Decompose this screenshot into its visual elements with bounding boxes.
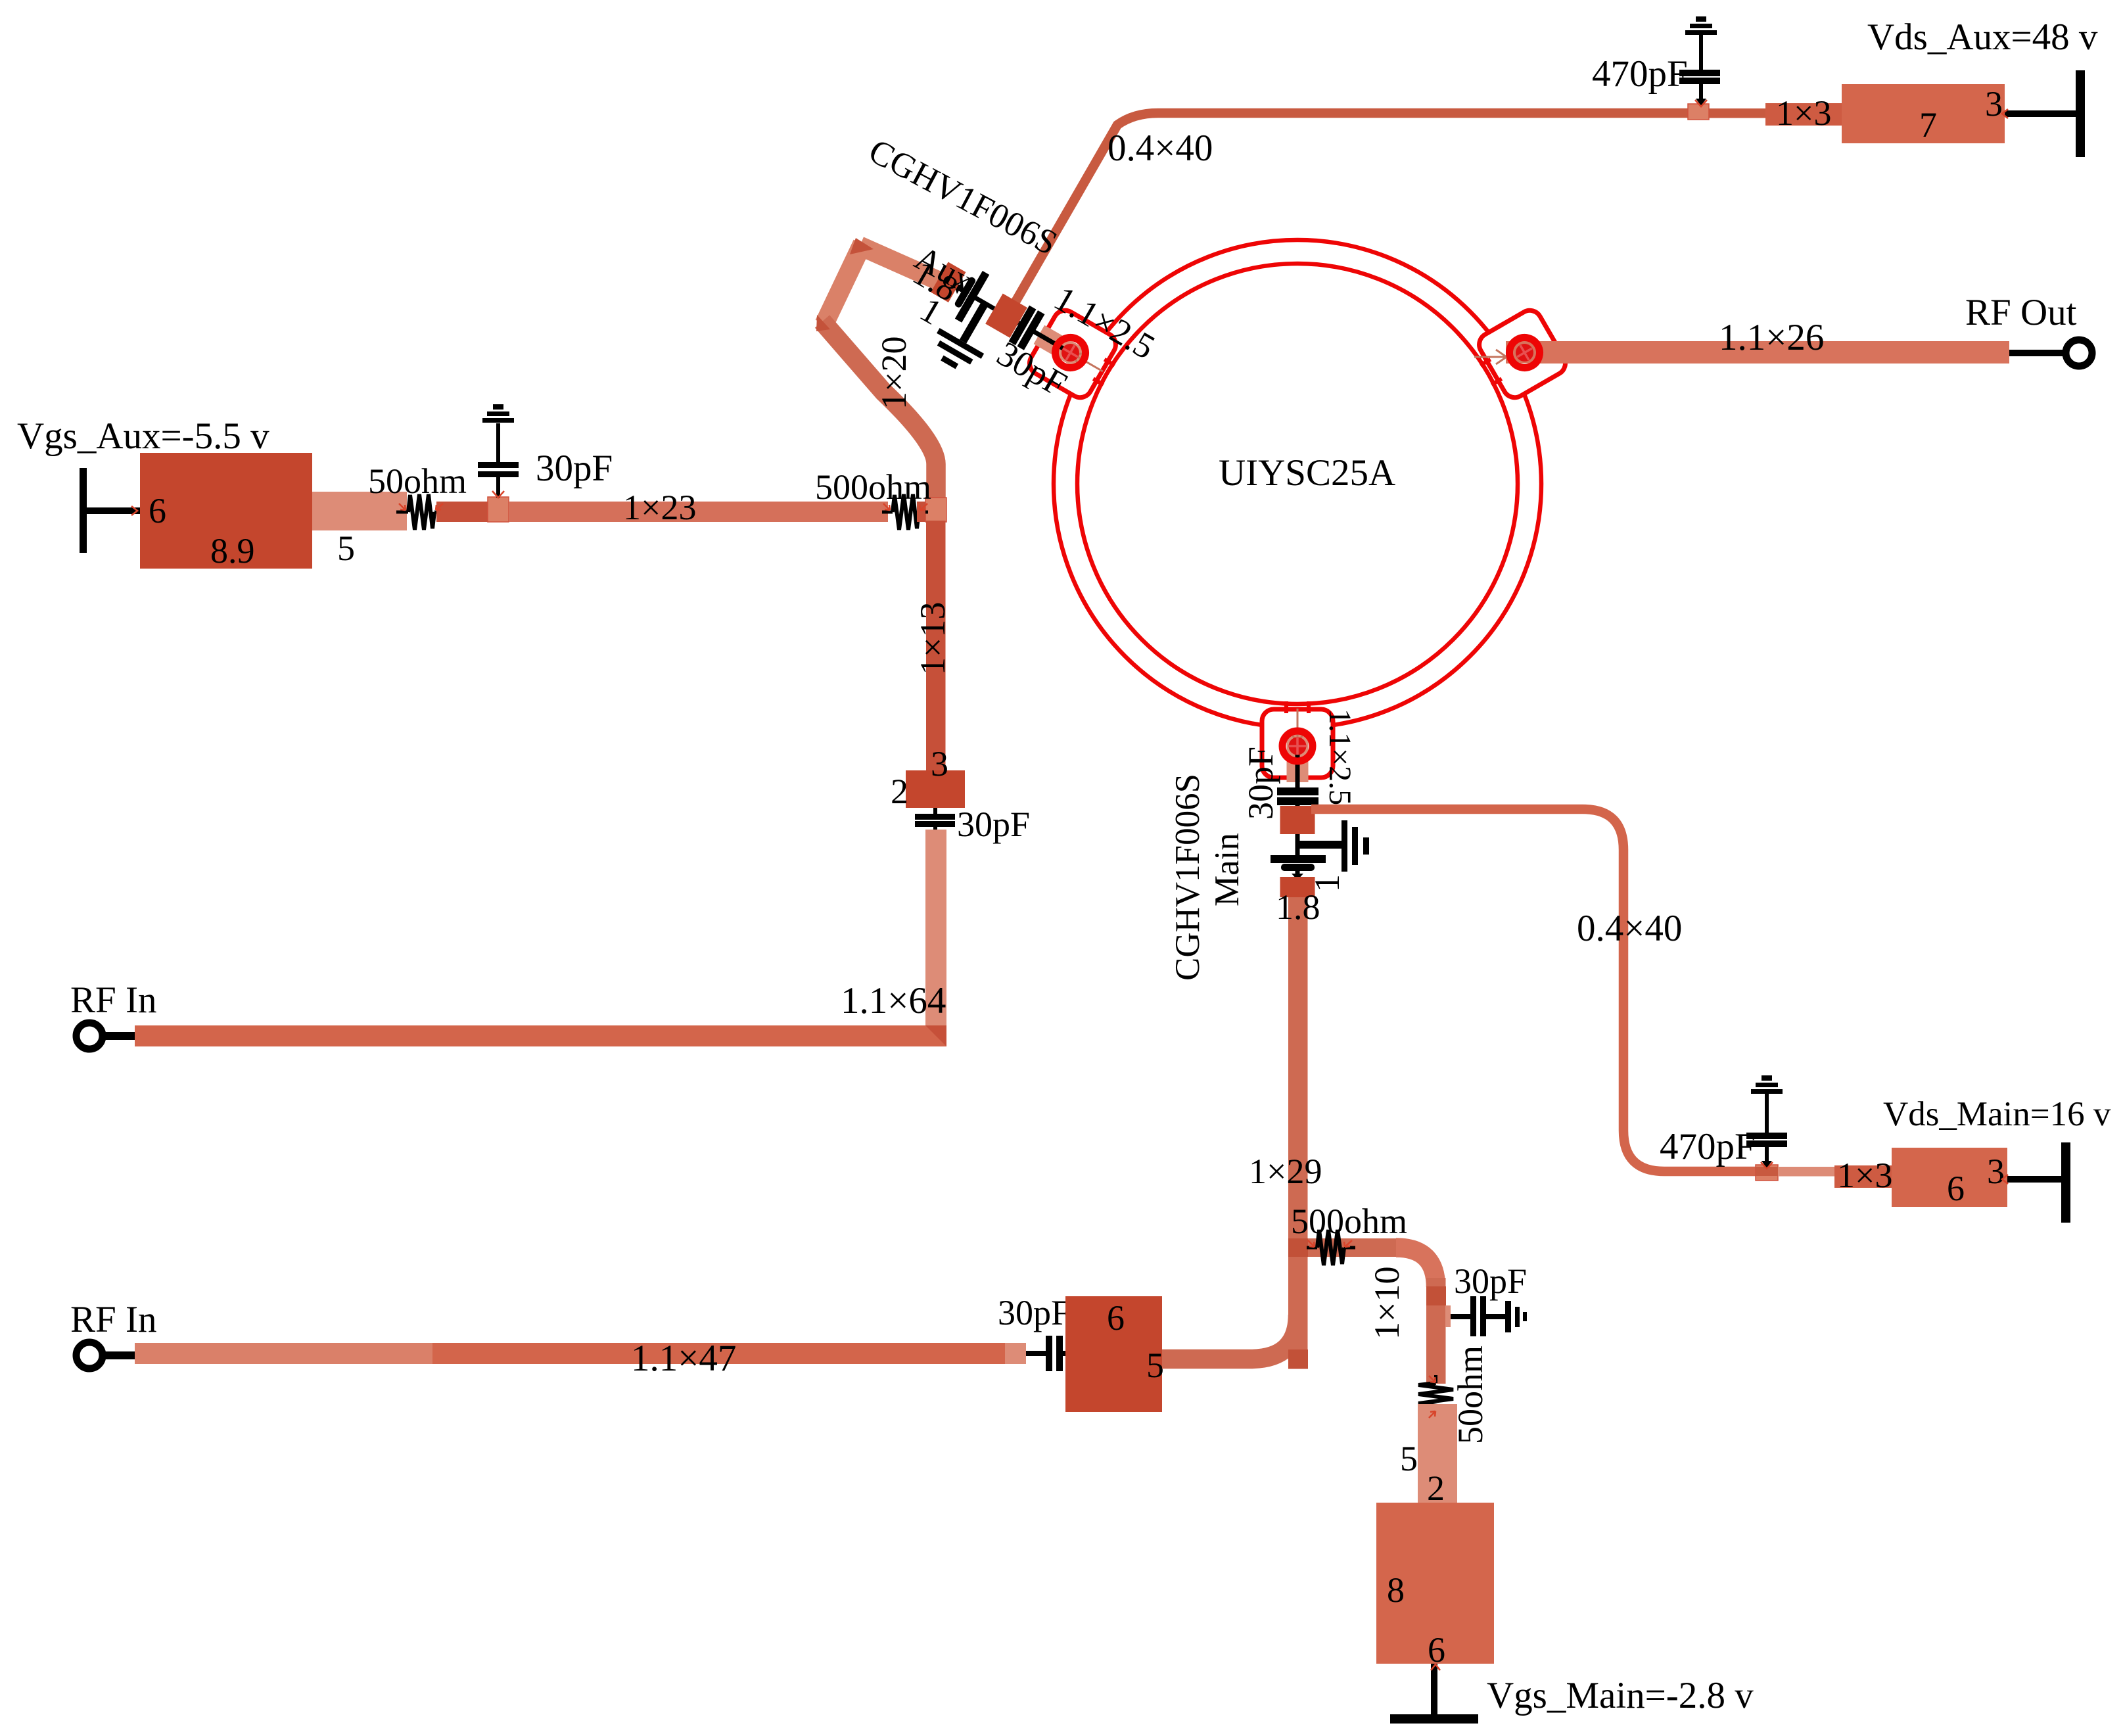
RF Out port circle — [2066, 340, 2092, 366]
circulator tab port 1 (left) — [1025, 306, 1127, 406]
wire to 1x3 pad (Main) — [1778, 1167, 1834, 1177]
svg-text:1×13: 1×13 — [913, 602, 952, 675]
transistor CGHV1F006S Main chain assembly — [1271, 734, 1369, 897]
junction square pin5/1x29 — [1288, 1349, 1308, 1369]
wire hairpin left leg — [824, 244, 862, 324]
junction square 500ohm (Main) — [1288, 1238, 1308, 1257]
pad 1x3 (Aux) — [1765, 103, 1842, 126]
Vgs_Main ground stem — [1431, 1664, 1437, 1718]
wire hairpin lower leg to 1x20 — [822, 321, 936, 521]
svg-text:Vds_Aux=48 v: Vds_Aux=48 v — [1867, 16, 2098, 58]
svg-text:1×10: 1×10 — [1367, 1267, 1407, 1340]
RF In (Main) port circle — [76, 1342, 103, 1369]
capacitor 470pF (Main) — [1746, 1093, 1787, 1168]
svg-text:5: 5 — [1146, 1346, 1164, 1385]
hairpin mitre corner top — [850, 238, 874, 254]
resistor 50ohm (Aux) — [396, 494, 446, 530]
svg-text:30pF: 30pF — [536, 448, 613, 489]
svg-text:2: 2 — [1427, 1468, 1445, 1508]
wire hairpin upper leg — [860, 246, 953, 287]
pad stub right — [1445, 1305, 1451, 1327]
svg-text:0.4×40: 0.4×40 — [1577, 908, 1682, 949]
arrow into RF Out pad — [1474, 350, 1506, 364]
svg-text:RF Out: RF Out — [1965, 292, 2077, 333]
svg-text:0.4×40: 0.4×40 — [1108, 128, 1213, 169]
svg-text:6: 6 — [1947, 1169, 1965, 1208]
svg-text:500ohm: 500ohm — [1291, 1202, 1407, 1241]
Vgs_Aux ground bar — [80, 468, 87, 553]
svg-text:1×3: 1×3 — [1837, 1156, 1892, 1195]
svg-text:500ohm: 500ohm — [815, 467, 931, 507]
wire 1.1x47 light end — [1005, 1343, 1026, 1364]
svg-text:UIYSC25A: UIYSC25A — [1219, 452, 1395, 494]
block pins 2/3 (Aux gate bias block) — [906, 770, 965, 808]
circulator middle ring — [1077, 264, 1518, 704]
circulator outer ring — [1054, 240, 1541, 728]
wire 1x10 vertical — [1426, 1278, 1446, 1384]
hairpin mitre corner bottom — [816, 315, 830, 331]
ground above 470pF (Aux) — [1685, 16, 1717, 35]
transistor CGHV1F006S Aux chain assembly — [904, 254, 1094, 421]
wire RF In Aux horizontal 1.1x64 — [135, 1025, 946, 1046]
ground above 30pF — [482, 404, 514, 423]
svg-text:3: 3 — [931, 744, 948, 784]
wire dark stub — [436, 502, 489, 522]
ground above 470pF (Main) — [1751, 1075, 1783, 1094]
svg-text:8: 8 — [1387, 1570, 1405, 1610]
svg-text:8.9: 8.9 — [210, 531, 255, 571]
svg-text:1×29: 1×29 — [1249, 1152, 1322, 1191]
circulator tab port 2 (right) — [1468, 306, 1570, 406]
block 6/5 (Main input) — [1065, 1296, 1162, 1412]
RF In (Main) port lead — [104, 1351, 135, 1359]
svg-text:6: 6 — [149, 491, 166, 530]
svg-text:Vgs_Main=-2.8 v: Vgs_Main=-2.8 v — [1487, 1675, 1754, 1716]
svg-text:5: 5 — [1400, 1439, 1418, 1478]
junction square 30pF tap — [488, 497, 509, 522]
svg-text:1.1×2.5: 1.1×2.5 — [1322, 709, 1357, 805]
svg-text:470pF: 470pF — [1592, 53, 1688, 95]
junction 470pF (Main) — [1756, 1165, 1778, 1181]
svg-text:470pF: 470pF — [1660, 1126, 1756, 1167]
wire 1.1x47 light segment — [135, 1343, 432, 1364]
svg-text:RF In: RF In — [70, 979, 156, 1021]
svg-text:5: 5 — [337, 528, 355, 568]
Vds_Aux ground lead — [2005, 110, 2077, 117]
block 6 Vds_Main — [1892, 1148, 2007, 1207]
port pad RF Out (circulator port 2) — [1504, 332, 1545, 373]
svg-text:RF In: RF In — [70, 1299, 156, 1340]
svg-text:1×23: 1×23 — [623, 488, 696, 527]
wire 1.1x47 main segment — [432, 1343, 1005, 1364]
block 8 (Vgs_Main) — [1376, 1503, 1494, 1664]
svg-text:1.1×47: 1.1×47 — [631, 1338, 736, 1379]
block 7 Vds_Aux — [1842, 84, 2005, 143]
capacitor 30pF (Main branch, to ground) — [1451, 1296, 1527, 1336]
svg-text:Vds_Main=16 v: Vds_Main=16 v — [1883, 1095, 2111, 1133]
svg-text:1×3: 1×3 — [1776, 93, 1831, 133]
wire 1x23 — [509, 502, 888, 522]
pad pin2 stub — [312, 492, 407, 530]
capacitor 470pF (Aux) — [1679, 34, 1720, 106]
svg-text:30pF: 30pF — [957, 805, 1030, 844]
svg-text:3: 3 — [1987, 1152, 2005, 1191]
RF In (Aux) port circle — [76, 1023, 103, 1049]
resistor 50ohm (Main) vertical — [1418, 1375, 1453, 1420]
capacitor 30pF (RF In Main DC block) — [1026, 1336, 1067, 1371]
circulator tab port 3 (bottom) — [1262, 701, 1333, 778]
resistor 500ohm (Aux) — [882, 494, 928, 530]
svg-text:3: 3 — [1985, 84, 2003, 124]
wire 1x29 vertical (Main gate line) — [1288, 895, 1308, 1369]
resistor 500ohm (Main) — [1307, 1230, 1355, 1265]
port pad Main — [1282, 731, 1313, 761]
svg-text:Main: Main — [1208, 833, 1246, 906]
arrow into Aux pad — [1069, 348, 1106, 377]
svg-text:1.1×26: 1.1×26 — [1719, 317, 1824, 358]
corner bevel — [925, 1025, 946, 1046]
pad 1x3 (Main) — [1834, 1165, 1895, 1188]
svg-text:CGHV1F006S: CGHV1F006S — [1169, 774, 1207, 981]
wire 1x13 vertical — [926, 521, 946, 770]
red connection arrows — [131, 109, 2008, 1670]
svg-text:2: 2 — [891, 772, 908, 811]
RF In (Aux) port lead — [104, 1032, 135, 1040]
wire junction to 1x3 (Aux) — [1709, 108, 1765, 118]
block 8.9 (Vgs_Aux) — [140, 453, 312, 569]
wire 0.4x40 Aux bias diagonal — [1006, 113, 1689, 319]
Vds_Aux ground bar — [2076, 70, 2085, 157]
junction square 30pF (Main branch) — [1426, 1286, 1446, 1305]
junction 470pF (Aux) — [1688, 104, 1709, 120]
wire arc to 1x10 — [1396, 1248, 1436, 1287]
arrow into Main pad — [1290, 709, 1305, 743]
wire 0.4x40 Main bias line — [1311, 809, 1757, 1171]
capacitor 30pF (Vgs_Aux line) — [478, 423, 519, 498]
svg-text:30pF: 30pF — [1241, 747, 1280, 820]
wire 500ohm branch — [1308, 1238, 1396, 1257]
Vds_Main ground bar — [2061, 1142, 2070, 1223]
svg-text:6: 6 — [1107, 1298, 1125, 1338]
Vgs_Main ground bar — [1390, 1714, 1478, 1724]
Vgs_Aux ground lead — [87, 507, 140, 514]
wire RF Out trace 1.1x26 — [1506, 341, 2009, 364]
wire pin5 to 1x29 — [1162, 1315, 1298, 1359]
port pad Aux — [1050, 332, 1091, 373]
junction square (Vgs_Aux line meets vertical) — [925, 498, 946, 522]
svg-text:1.8: 1.8 — [1276, 887, 1320, 927]
wire vertical light (to RF In Aux) — [925, 830, 946, 1035]
svg-text:7: 7 — [1919, 105, 1937, 145]
wire dark stub right — [917, 502, 925, 522]
svg-text:1.1×64: 1.1×64 — [841, 980, 946, 1021]
svg-text:30pF: 30pF — [998, 1293, 1071, 1332]
svg-text:Vgs_Aux=-5.5 v: Vgs_Aux=-5.5 v — [17, 415, 269, 457]
capacitor 30pF (Aux input DC block) — [915, 808, 955, 848]
pad 5/2 — [1418, 1404, 1457, 1511]
svg-text:30pF: 30pF — [1454, 1261, 1527, 1301]
svg-text:1×20: 1×20 — [874, 337, 914, 410]
svg-text:50ohm: 50ohm — [368, 461, 467, 501]
Vds_Main ground lead — [2007, 1176, 2064, 1183]
RF Out port lead — [2009, 350, 2066, 356]
